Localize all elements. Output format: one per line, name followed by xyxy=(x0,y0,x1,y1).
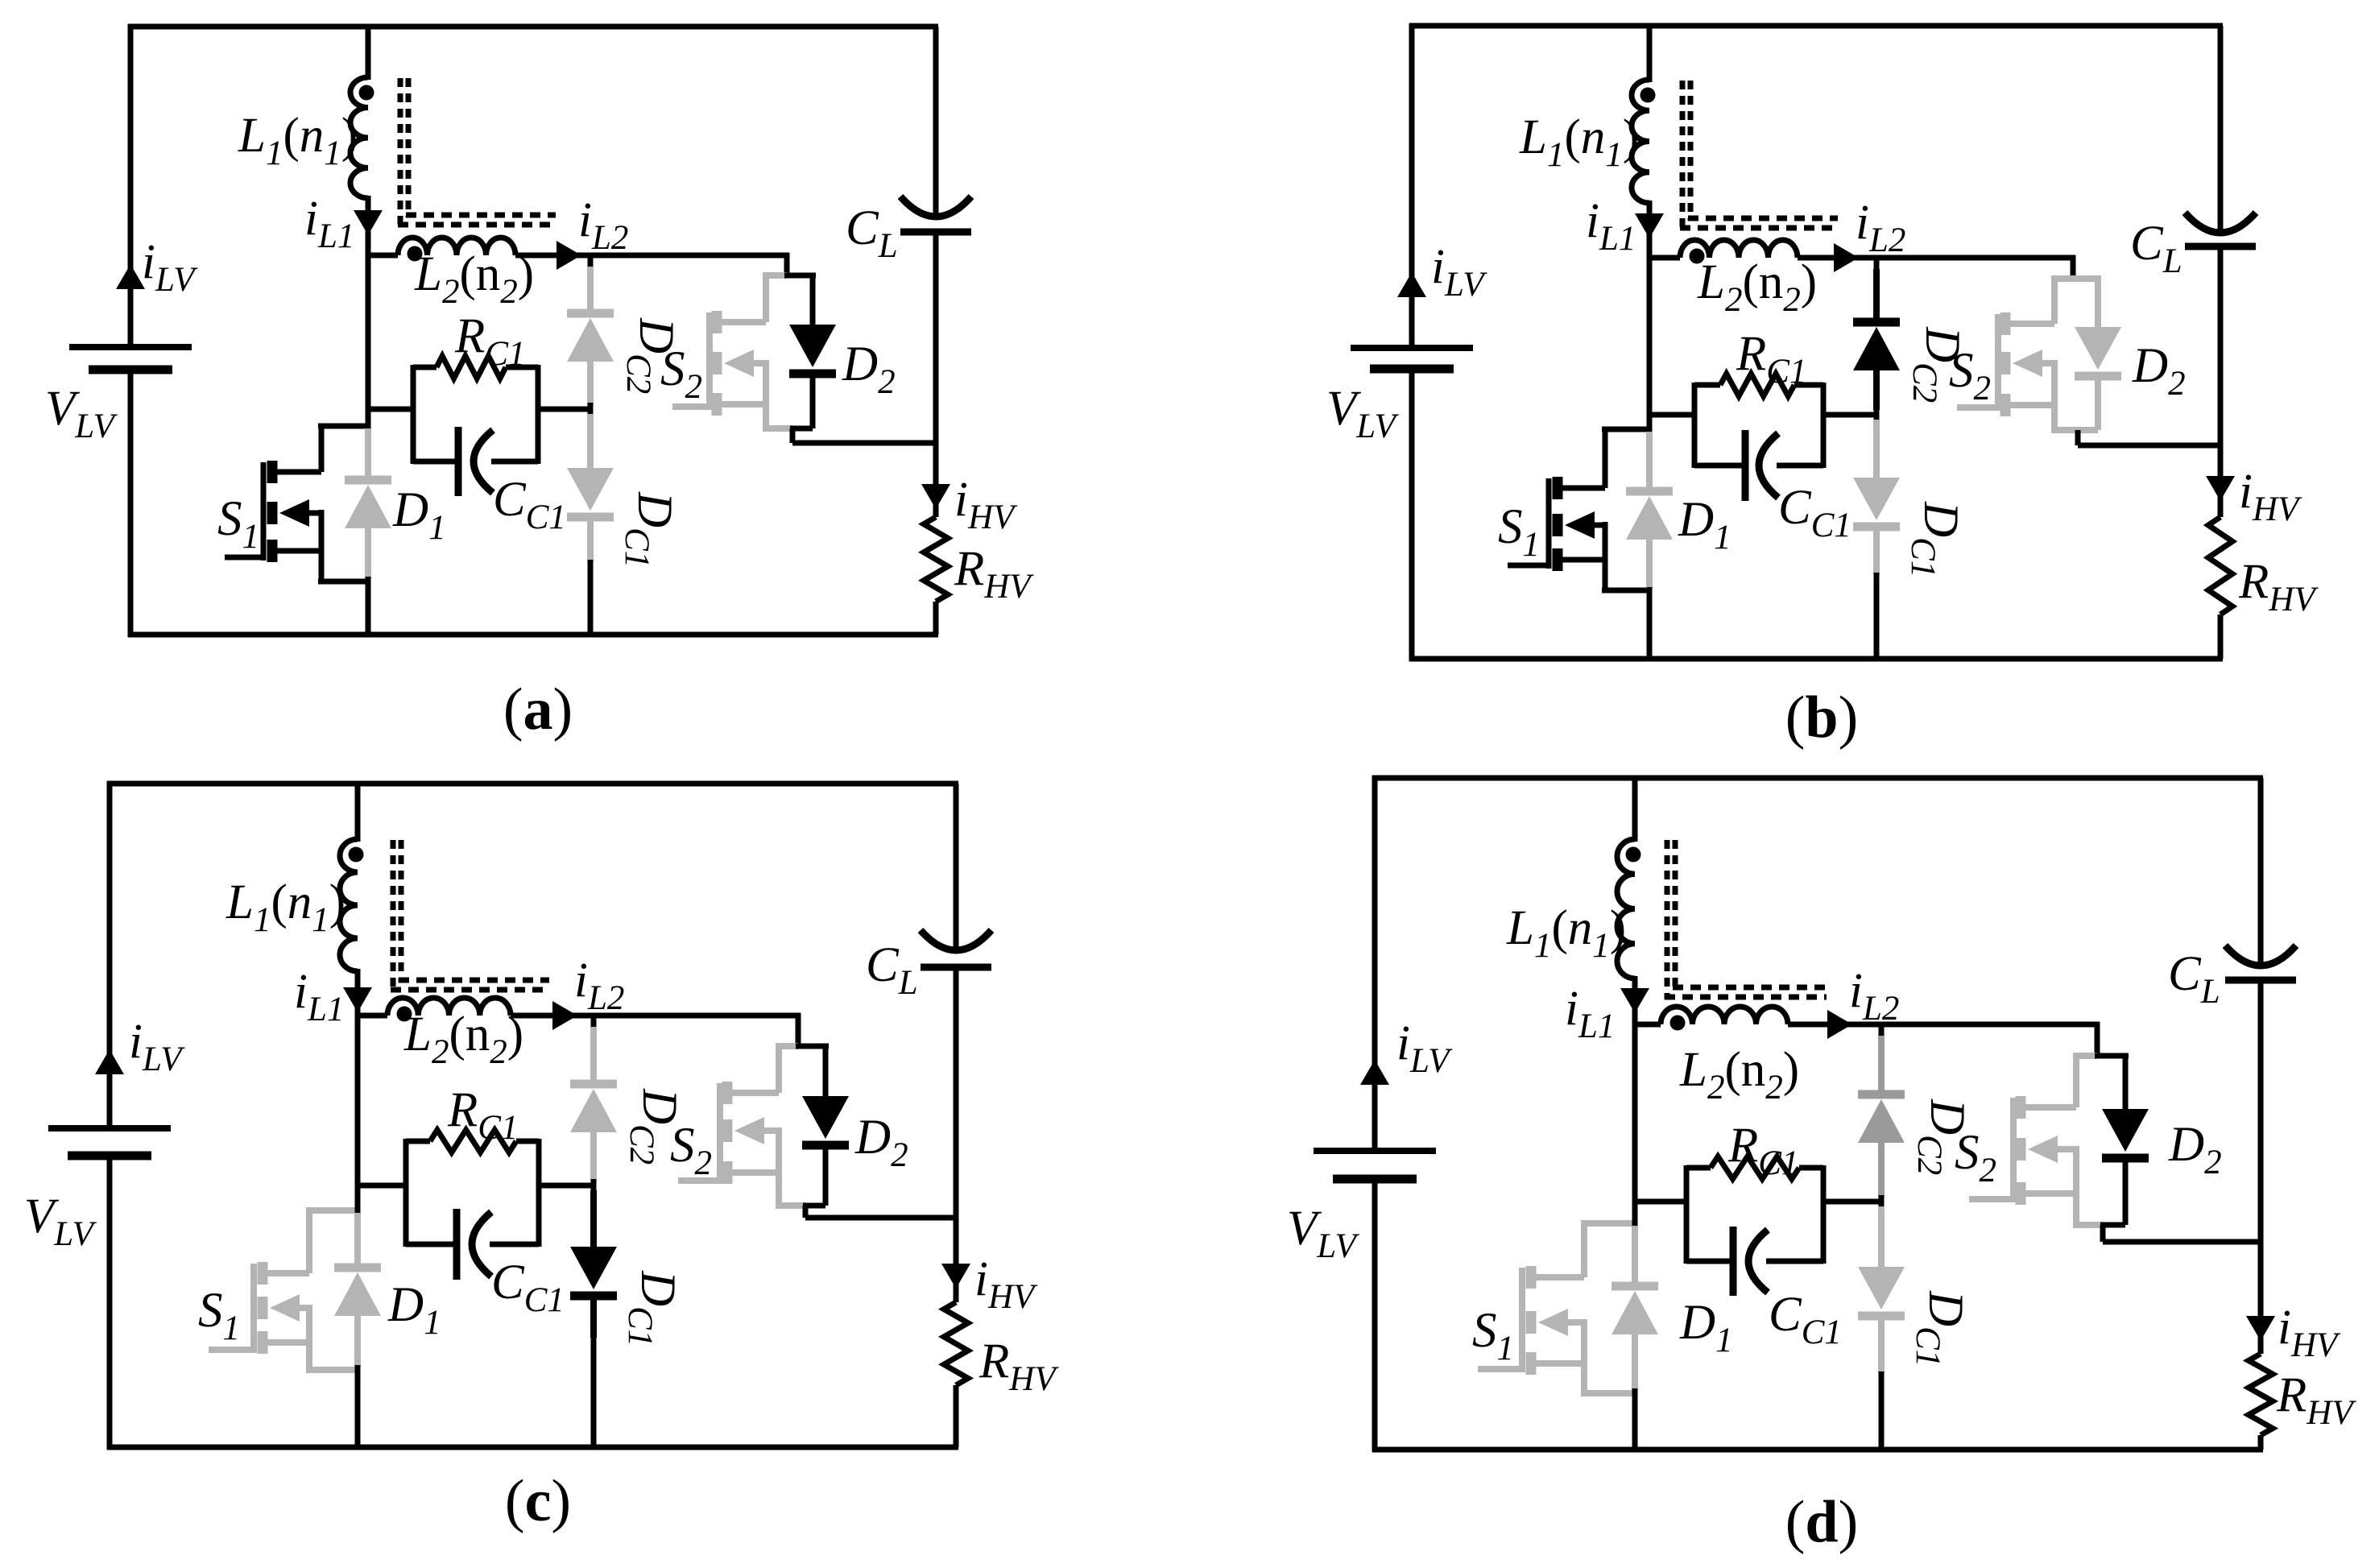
wire L1 top xyxy=(355,784,361,842)
current arrow iL1 xyxy=(354,210,383,235)
S2 block top left xyxy=(2051,275,2073,282)
diode D2 xyxy=(802,1096,849,1145)
wire DC2 anode xyxy=(1878,1036,1885,1094)
label DC1 xyxy=(1909,1290,1972,1367)
S2 drain stub xyxy=(730,1046,779,1093)
clamp box right side xyxy=(1821,383,1827,468)
label RHV xyxy=(978,1334,1059,1398)
D2 block bottom right xyxy=(2075,427,2098,433)
D2 cathode wire xyxy=(823,1144,829,1206)
wire iL1 junction to L2 xyxy=(1647,255,1680,261)
wire DC1 to bottom rail xyxy=(591,1336,597,1447)
battery VLV plus plate xyxy=(48,1125,171,1132)
wire left rail lower xyxy=(107,1156,113,1450)
label CL xyxy=(846,201,898,265)
battery VLV minus plate xyxy=(1333,1175,1417,1184)
label S2 xyxy=(660,342,702,406)
svg-text:(b): (b) xyxy=(1785,685,1858,751)
wire DC2 anode xyxy=(587,267,594,313)
S1 channel segments xyxy=(1526,1266,1537,1375)
wire DC1 cathode xyxy=(1878,1317,1885,1373)
resistor RC1 xyxy=(1711,1156,1799,1179)
diode D1 xyxy=(1626,491,1673,540)
label iL1 xyxy=(1565,982,1615,1045)
diode D1 xyxy=(345,480,391,528)
wire right rail mid xyxy=(2218,246,2224,445)
wire L2 node down to S2 block xyxy=(2071,255,2076,279)
current arrow iHV xyxy=(921,484,950,509)
capacitor CC1 straight plate xyxy=(455,427,462,496)
wire clamp to DC branch xyxy=(536,1183,594,1189)
current arrow iHV xyxy=(2206,476,2235,501)
wire DC2 anode xyxy=(590,1027,597,1084)
label CL xyxy=(866,938,918,1002)
S1 source join xyxy=(306,1367,358,1373)
battery VLV plus plate xyxy=(1314,1148,1436,1154)
diode DC2 xyxy=(570,1084,617,1132)
label CC1 xyxy=(1778,481,1851,544)
wire RHV to bottom rail xyxy=(2218,614,2224,659)
label S2 xyxy=(1955,1126,1996,1189)
wire main branch to bottom rail xyxy=(1632,1388,1638,1450)
label CC1 xyxy=(491,1256,565,1319)
wire main branch to drain join xyxy=(355,1013,361,1213)
diode D1 cathode wire xyxy=(365,527,371,578)
D2 block bottom right xyxy=(2100,1223,2125,1228)
resistor RHV xyxy=(2249,1354,2273,1435)
label iL1 xyxy=(304,192,354,255)
S2 gate lead xyxy=(678,1177,720,1184)
L2 polarity dot xyxy=(1690,249,1705,264)
wire L2 to DC2 node xyxy=(1788,1022,1885,1028)
inductor L1 xyxy=(1632,80,1649,203)
wire clamp to DC branch xyxy=(1821,1199,1881,1205)
wire clamp junction to DC1 xyxy=(1878,1206,1885,1267)
capacitor CL curved plate xyxy=(900,197,971,217)
wire left rail lower xyxy=(1372,1179,1378,1452)
svg-text:(d): (d) xyxy=(1785,1489,1858,1555)
current arrow iLV xyxy=(1397,272,1426,297)
wire RHV to bottom rail xyxy=(954,1385,959,1447)
S2 gate lead xyxy=(672,403,710,410)
label iHV xyxy=(2239,465,2302,528)
S2 source stub xyxy=(2009,402,2054,408)
D2 anode wire xyxy=(810,275,816,325)
inductor L2 xyxy=(1680,240,1798,258)
label D2 xyxy=(2132,339,2186,403)
wire top rail xyxy=(107,781,958,787)
diode D1 cathode wire xyxy=(354,1314,361,1367)
label DC2 xyxy=(1910,1098,1974,1175)
S2 body arrow xyxy=(724,350,766,377)
wire block to right rail xyxy=(2078,443,2220,449)
diode DC2 xyxy=(1853,322,1900,370)
wire main branch to bottom rail xyxy=(1647,587,1653,659)
wire bottom rail xyxy=(107,1445,958,1450)
wire RHV to bottom rail xyxy=(933,602,939,635)
wire L2 node down to S2 block xyxy=(2095,1022,2100,1056)
subfigure label xyxy=(1785,1489,1858,1555)
D2 anode wire xyxy=(823,1046,829,1096)
S2 gate bar xyxy=(1995,314,2001,411)
wire L2 to DC2 node xyxy=(1798,255,1880,261)
capacitor CL straight plate xyxy=(921,964,991,971)
label iHV xyxy=(954,473,1018,536)
S1 gate lead xyxy=(225,555,263,561)
S2 drain stub xyxy=(2009,279,2054,324)
wire block to right rail xyxy=(792,441,936,446)
capacitor CL straight plate xyxy=(900,229,971,236)
wire L1 top xyxy=(1632,778,1638,842)
S2 block top left xyxy=(2073,1053,2097,1059)
wire top rail xyxy=(1372,776,2263,781)
diode D1 cathode wire xyxy=(1646,538,1653,589)
wire DC1 cathode xyxy=(587,518,594,561)
wire right rail to RHV xyxy=(2218,445,2224,517)
label L2(n2) xyxy=(403,1007,523,1071)
wire DC2 anode xyxy=(1873,269,1880,322)
wire node to DC2 xyxy=(1879,1024,1885,1039)
label CL xyxy=(2168,947,2220,1011)
S2 source vertical xyxy=(763,360,769,428)
label iL1 xyxy=(294,965,344,1028)
wire right rail top xyxy=(954,784,959,948)
wire right rail to RHV xyxy=(2258,1242,2264,1354)
D2 cathode wire xyxy=(2123,1156,2129,1225)
diode DC1 xyxy=(1853,478,1900,527)
diode D1 anode wire xyxy=(1632,1226,1638,1286)
diode D1 xyxy=(1612,1286,1658,1334)
label RHV xyxy=(2238,555,2319,619)
clamp box right side xyxy=(1821,1165,1827,1264)
label iL1 xyxy=(1586,194,1636,258)
label iLV xyxy=(1396,1016,1453,1080)
label iL2 xyxy=(578,193,628,257)
D2 block bottom right xyxy=(790,426,813,432)
wire top rail xyxy=(1409,23,2223,29)
label RC1 xyxy=(1736,327,1806,391)
node clamp junction xyxy=(588,403,594,416)
S2 block top left xyxy=(763,272,787,279)
label S1 xyxy=(217,492,259,556)
S2 channel segments xyxy=(722,1082,733,1184)
battery VLV minus plate xyxy=(68,1152,151,1160)
node clamp junction xyxy=(1879,1195,1885,1208)
wire DC2 node to S2 block xyxy=(1876,255,2075,261)
wire left rail upper xyxy=(107,781,113,1128)
label DC2 xyxy=(623,1088,686,1165)
diode DC1 xyxy=(570,1247,617,1296)
clamp box top segments xyxy=(413,365,538,370)
wire L2 to DC2 node xyxy=(511,1013,597,1019)
diode D2 xyxy=(2075,327,2121,376)
L1 polarity dot xyxy=(359,85,374,101)
magnetic core dashed lines xyxy=(1665,840,1827,999)
wire DC1 to bottom rail xyxy=(588,560,594,635)
wire clamp to DC branch xyxy=(1821,412,1876,418)
label D1 xyxy=(1679,1296,1733,1359)
S1 source stub xyxy=(1561,557,1605,563)
S2 channel segments xyxy=(712,311,722,416)
wire L2 node down to S2 block xyxy=(784,253,790,275)
inductor L1 xyxy=(350,77,368,198)
D2 anode wire xyxy=(2123,1056,2129,1109)
current arrow iL2 xyxy=(552,1001,577,1030)
wire L1 top xyxy=(1647,26,1653,82)
wire main branch to drain join xyxy=(366,253,371,428)
current arrow iLV xyxy=(1360,1060,1389,1085)
capacitor CC1 curved plate xyxy=(474,430,493,493)
capacitor CC1 straight plate xyxy=(1730,1227,1737,1296)
wire DC2 cathode to clamp junction xyxy=(1878,1141,1885,1197)
diode D1 anode wire xyxy=(1646,432,1653,491)
label D2 xyxy=(854,1111,908,1174)
label S1 xyxy=(1472,1304,1514,1367)
inductor L2 xyxy=(387,998,511,1016)
wire L1 bottom / iL1 xyxy=(1647,201,1653,258)
clamp box bottom segments xyxy=(1694,463,1823,469)
S1 source join xyxy=(1581,1390,1635,1396)
wire clamp junction to DC1 xyxy=(587,414,594,468)
clamp box top segments xyxy=(1686,1165,1823,1171)
wire node to DC2 xyxy=(591,1016,597,1030)
wire left rail lower xyxy=(128,370,134,637)
resistor RHV xyxy=(2208,517,2232,614)
D2 block top right xyxy=(2071,275,2101,282)
S1 gate bar xyxy=(1546,478,1552,569)
wire right rail mid xyxy=(933,232,939,443)
wire bottom rail xyxy=(1409,656,2223,662)
capacitor CL curved plate xyxy=(2225,945,2296,966)
label L2(n2) xyxy=(1697,255,1817,319)
magnetic core dashed lines xyxy=(398,78,556,227)
S2 block bottom left xyxy=(2073,1222,2103,1228)
subfigure label xyxy=(503,676,573,743)
magnetic core dashed lines xyxy=(391,840,549,992)
S1 channel segments xyxy=(258,1262,268,1354)
clamp box bottom segments xyxy=(1686,1259,1823,1264)
capacitor CC1 curved plate xyxy=(1748,1230,1768,1293)
L1 polarity dot xyxy=(349,847,364,863)
S1 drain join xyxy=(306,1207,358,1214)
L2 polarity dot xyxy=(397,1007,412,1022)
label iL2 xyxy=(1856,196,1905,259)
wire L2 node down to S2 block xyxy=(796,1013,801,1046)
wire clamp junction to DC1 xyxy=(590,1190,597,1247)
node clamp junction xyxy=(591,1179,597,1192)
D2 cathode wire xyxy=(2095,374,2101,430)
wire iL1 junction to L2 xyxy=(366,253,398,259)
S1 body arrow xyxy=(279,499,321,527)
svg-text:(c): (c) xyxy=(505,1468,571,1534)
label CC1 xyxy=(493,473,566,536)
label VLV xyxy=(45,382,118,445)
wire left rail upper xyxy=(1409,23,1415,348)
S1 source stub xyxy=(266,1339,309,1346)
resistor RC1 xyxy=(1720,374,1794,396)
wire block tap down xyxy=(790,428,796,443)
wire main branch to clamp xyxy=(368,407,416,412)
clamp box right side xyxy=(536,365,541,464)
current arrow iL2 xyxy=(1827,1010,1852,1039)
label DC2 xyxy=(1905,326,1969,403)
S1 gate bar xyxy=(1519,1268,1525,1372)
label D1 xyxy=(387,1278,441,1342)
S2 body arrow xyxy=(734,1117,779,1144)
wire L1 bottom / iL1 xyxy=(366,196,371,255)
label DC2 xyxy=(619,317,683,394)
inductor L1 xyxy=(1617,839,1635,978)
label S1 xyxy=(198,1284,240,1347)
subfigure label xyxy=(505,1468,571,1534)
wire block tap down xyxy=(2100,1225,2106,1242)
clamp box right side xyxy=(536,1139,542,1247)
label RC1 xyxy=(447,1083,518,1147)
S1 gate lead xyxy=(1478,1366,1522,1372)
S2 body arrow xyxy=(2028,1136,2076,1163)
L2 polarity dot xyxy=(1670,1016,1686,1031)
wire main branch to drain join xyxy=(1647,255,1653,432)
circuit (b): DC2 conducting interval xyxy=(1326,23,2319,751)
wire right rail mid xyxy=(2258,980,2264,1242)
label DC1 xyxy=(618,491,681,568)
resistor RHV xyxy=(924,517,948,602)
wire right rail mid xyxy=(954,967,959,1218)
S2 drain stub xyxy=(720,275,766,322)
label iHV xyxy=(974,1252,1038,1316)
S1 drain stub xyxy=(266,1210,309,1273)
capacitor CC1 curved plate xyxy=(472,1212,491,1276)
current arrow iL1 xyxy=(1635,213,1664,238)
svg-text:(a): (a) xyxy=(503,676,573,743)
resistor RC1 xyxy=(430,1130,516,1152)
D2 block top right xyxy=(2095,1053,2129,1059)
inductor L2 xyxy=(398,238,515,255)
label L1(n1) xyxy=(225,875,345,939)
wire clamp to DC branch xyxy=(536,407,590,412)
clamp box left side xyxy=(1692,383,1698,468)
label iLV xyxy=(129,1015,185,1078)
wire right rail top xyxy=(933,27,939,214)
S1 channel segments xyxy=(1553,477,1563,571)
wire block to right rail xyxy=(2103,1239,2261,1245)
wire top rail xyxy=(128,24,938,30)
S1 drain join xyxy=(1581,1220,1635,1227)
wire right rail to RHV xyxy=(954,1218,959,1302)
S2 source vertical xyxy=(776,1127,782,1206)
S2 channel segments xyxy=(2016,1096,2026,1205)
clamp box top segments xyxy=(1694,383,1823,388)
label VLV xyxy=(1287,1202,1360,1265)
diode D1 cathode wire xyxy=(1632,1333,1638,1390)
label iLV xyxy=(1431,240,1487,304)
current arrow iL1 xyxy=(1620,988,1649,1013)
wire node to DC2 xyxy=(1874,258,1880,272)
label D1 xyxy=(1678,493,1731,556)
S1 drain join xyxy=(318,424,368,429)
wire right rail top xyxy=(2258,778,2264,963)
wire iL1 junction to L2 xyxy=(355,1013,387,1019)
diode D2 xyxy=(789,325,836,374)
S2 channel segments xyxy=(2000,312,2011,416)
wire bottom rail xyxy=(1372,1447,2263,1453)
clamp box bottom segments xyxy=(413,459,538,465)
label RC1 xyxy=(1727,1119,1798,1182)
diode DC1 xyxy=(1858,1267,1905,1316)
capacitor CL curved plate xyxy=(2185,213,2256,233)
S1 source vertical xyxy=(1603,522,1608,590)
label RHV xyxy=(2276,1368,2356,1432)
S2 gate bar xyxy=(2010,1098,2017,1202)
S2 source stub xyxy=(720,401,766,408)
S2 source vertical xyxy=(2051,360,2058,430)
current arrow iL2 xyxy=(1834,243,1859,272)
label CC1 xyxy=(1769,1288,1842,1351)
label D1 xyxy=(392,483,446,547)
S2 block top left xyxy=(776,1043,798,1049)
diode DC2 xyxy=(1858,1094,1905,1143)
S2 source vertical xyxy=(2073,1146,2079,1225)
capacitor CL curved plate xyxy=(921,930,991,950)
S1 body arrow xyxy=(270,1294,309,1322)
wire DC2 cathode to clamp junction xyxy=(587,360,594,404)
wire L1 bottom / iL1 xyxy=(355,969,361,1016)
current arrow iHV xyxy=(2246,1316,2275,1341)
S1 drain stub xyxy=(275,426,321,472)
label DC1 xyxy=(1904,501,1967,577)
diode DC2 xyxy=(567,313,614,362)
wire L2 to DC2 node xyxy=(515,253,594,259)
label RC1 xyxy=(454,309,525,373)
capacitor CL straight plate xyxy=(2185,243,2256,250)
S1 source vertical xyxy=(306,1305,312,1370)
wire clamp junction to DC1 xyxy=(1873,420,1880,478)
wire block to right rail xyxy=(805,1215,956,1221)
S2 block bottom left xyxy=(763,425,792,432)
wire DC2 node to S2 block xyxy=(594,1013,801,1019)
D2 block top right xyxy=(784,273,816,279)
S1 source join xyxy=(1602,588,1649,594)
label L2(n2) xyxy=(1679,1043,1799,1107)
diode D1 anode wire xyxy=(365,428,371,480)
label L1(n1) xyxy=(1506,901,1626,965)
wire main branch to clamp xyxy=(1635,1199,1689,1205)
capacitor CC1 straight plate xyxy=(453,1209,461,1280)
S2 gate bar xyxy=(706,312,713,410)
L1 polarity dot xyxy=(1626,847,1641,863)
wire block tap down xyxy=(803,1206,809,1218)
D2 block bottom right xyxy=(803,1203,825,1209)
magnetic core dashed lines xyxy=(1680,81,1838,230)
inductor L2 xyxy=(1661,1007,1788,1024)
diode D1 xyxy=(334,1268,381,1316)
S1 gate lead xyxy=(1508,563,1549,569)
S2 drain stub xyxy=(2024,1056,2076,1107)
label iHV xyxy=(2278,1301,2341,1364)
subfigure label xyxy=(1785,685,1858,751)
label CL xyxy=(2130,217,2182,280)
wire DC1 cathode xyxy=(590,1297,597,1338)
S2 source stub xyxy=(730,1169,779,1176)
current arrow iL2 xyxy=(556,241,581,270)
diode D2 xyxy=(2102,1109,2149,1158)
label L1(n1) xyxy=(1519,110,1639,174)
wire block tap down xyxy=(2075,430,2081,445)
label iL2 xyxy=(574,954,624,1017)
S1 gate lead xyxy=(209,1347,254,1353)
S1 drain stub xyxy=(1561,429,1605,488)
wire RHV to bottom rail xyxy=(2258,1435,2264,1450)
